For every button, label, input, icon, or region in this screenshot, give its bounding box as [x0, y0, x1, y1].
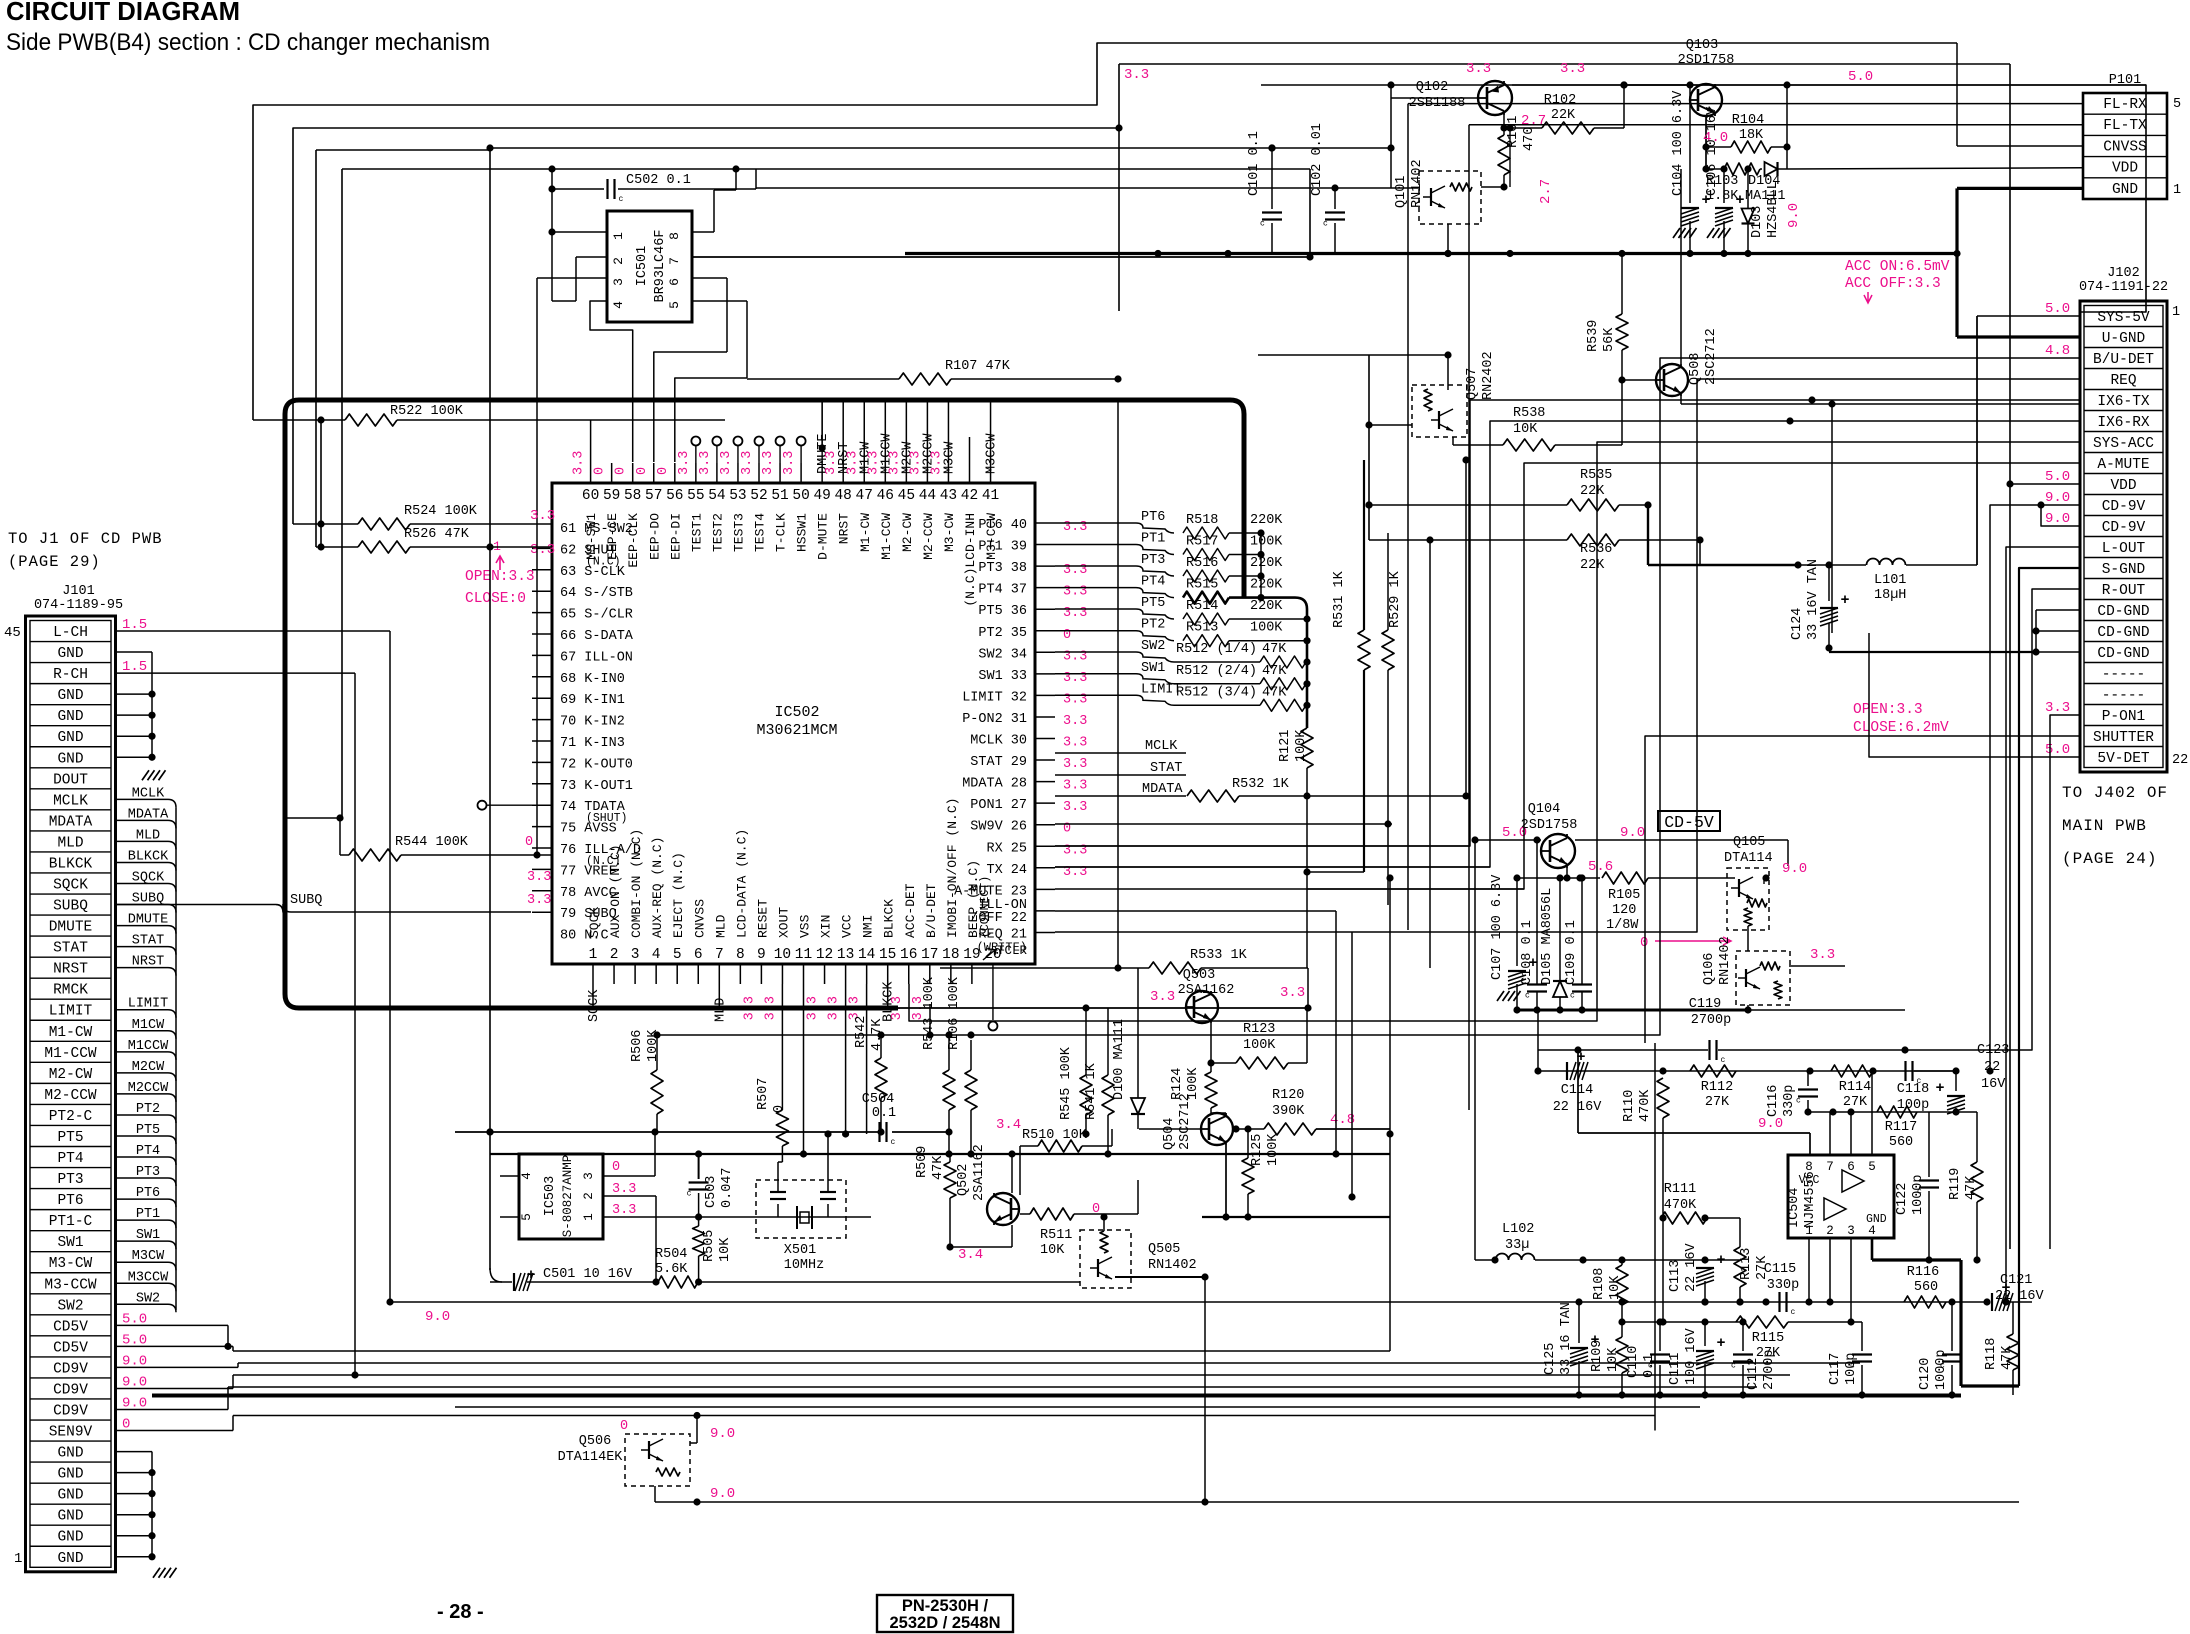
svg-text:3.3: 3.3 — [530, 508, 555, 524]
svg-text:MDATA: MDATA — [128, 807, 169, 822]
svg-text:L-CH: L-CH — [53, 625, 88, 641]
svg-text:D105 MA8056L: D105 MA8056L — [1540, 888, 1555, 985]
svg-text:BLKCK: BLKCK — [882, 899, 897, 938]
capacitor C106 — [1705, 106, 1745, 253]
capacitor C112 — [1622, 1318, 1777, 1398]
svg-text:22K: 22K — [1580, 484, 1605, 499]
IC502 bottom pins — [587, 798, 1027, 1031]
diode D104 — [1745, 81, 1802, 228]
svg-text:9.0: 9.0 — [425, 1309, 450, 1325]
svg-text:CLOSE:0: CLOSE:0 — [465, 591, 526, 607]
svg-text:44: 44 — [919, 488, 936, 504]
capacitor C111 — [1668, 1318, 1726, 1398]
svg-text:R532 1K: R532 1K — [1232, 777, 1290, 792]
resistor R102 — [1504, 81, 1628, 134]
svg-text:PT5: PT5 — [57, 1130, 83, 1146]
IC503 label — [543, 1155, 575, 1238]
svg-text:R116: R116 — [1907, 1265, 1939, 1280]
IC501 nest wires — [590, 301, 747, 462]
svg-text:C117: C117 — [1828, 1353, 1843, 1385]
IC502 label — [756, 704, 837, 739]
IC502 top net labels — [816, 433, 999, 474]
svg-text:10MHz: 10MHz — [784, 1258, 825, 1273]
svg-text:C110: C110 — [1626, 1346, 1641, 1378]
svg-text:TEST4: TEST4 — [753, 513, 768, 552]
resistor R106 — [947, 976, 977, 1157]
svg-text:SQCK: SQCK — [53, 878, 88, 894]
wire SUBQ — [115, 904, 531, 913]
transistor Q508 — [1618, 169, 2080, 633]
resistor R509 — [915, 1146, 956, 1251]
IC502 box — [552, 483, 1035, 964]
svg-text:BLKCK: BLKCK — [128, 849, 169, 864]
rail 1407 — [455, 1406, 1700, 1408]
svg-text:5: 5 — [667, 301, 682, 309]
left mid wires — [285, 818, 551, 908]
svg-text:0: 0 — [614, 467, 629, 475]
svg-text:43: 43 — [940, 488, 957, 504]
svg-text:48: 48 — [834, 488, 851, 504]
svg-text:CD-9V: CD-9V — [2102, 520, 2146, 536]
svg-text:R105: R105 — [1608, 888, 1640, 903]
svg-text:DMUTE: DMUTE — [128, 913, 169, 928]
svg-text:560: 560 — [1914, 1280, 1938, 1295]
svg-text:100p: 100p — [1897, 1098, 1929, 1113]
resistor R522 — [253, 404, 725, 426]
svg-text:60: 60 — [582, 488, 599, 504]
svg-text:1: 1 — [1805, 1224, 1813, 1238]
svg-text:Q106: Q106 — [1702, 953, 1717, 985]
svg-text:EEP-DI: EEP-DI — [668, 513, 683, 560]
svg-text:STAT 29: STAT 29 — [970, 755, 1027, 770]
svg-text:SW1: SW1 — [1141, 661, 1165, 676]
svg-text:c: c — [1570, 992, 1575, 1001]
vert 1648 — [1647, 505, 1649, 565]
capacitor C503 — [687, 1150, 735, 1217]
svg-text:STAT: STAT — [53, 941, 88, 957]
svg-text:M1-CW: M1-CW — [858, 513, 873, 552]
IC501 label — [635, 230, 668, 303]
svg-text:IX6-RX: IX6-RX — [2097, 415, 2150, 431]
svg-text:5: 5 — [2173, 97, 2181, 112]
IC502 top pins — [582, 463, 999, 504]
svg-text:DMUTE: DMUTE — [49, 920, 93, 936]
svg-text:12: 12 — [816, 947, 833, 963]
inductor L102 — [1475, 840, 1740, 1264]
capacitor C119 — [1538, 997, 1905, 1071]
svg-text:M3CW: M3CW — [132, 1249, 165, 1264]
svg-text:(SHUT): (SHUT) — [586, 812, 627, 825]
svg-text:PT2: PT2 — [136, 1102, 160, 1117]
svg-text:7: 7 — [1826, 1160, 1834, 1174]
svg-text:2: 2 — [611, 257, 626, 265]
resistor R118 — [1984, 1302, 2019, 1395]
svg-text:PT3: PT3 — [136, 1165, 160, 1180]
svg-text:Side PWB(B4) section : CD chan: Side PWB(B4) section : CD changer mechan… — [6, 29, 490, 56]
svg-text:C116: C116 — [1766, 1085, 1781, 1117]
svg-text:SW1 33: SW1 33 — [978, 669, 1027, 684]
resistor R510 — [1020, 1128, 1112, 1195]
resistor R511 — [1020, 1180, 1138, 1258]
svg-text:0: 0 — [656, 467, 671, 475]
svg-text:0: 0 — [612, 1160, 620, 1175]
svg-text:M3CCW: M3CCW — [128, 1270, 169, 1285]
svg-text:CD9V: CD9V — [53, 1361, 88, 1377]
IC504 pins — [1799, 1160, 1887, 1238]
J102 note — [2062, 784, 2168, 868]
IC503 voltages — [612, 1160, 636, 1218]
svg-text:ACC OFF:3.3: ACC OFF:3.3 — [1845, 276, 1941, 292]
svg-text:C120: C120 — [1918, 1358, 1933, 1390]
svg-text:c: c — [1721, 1056, 1726, 1065]
svg-text:IC504: IC504 — [1787, 1187, 1802, 1228]
svg-text:LCD-DATA (N.C): LCD-DATA (N.C) — [734, 829, 749, 938]
svg-text:10K: 10K — [1608, 1275, 1623, 1300]
capacitor C117 — [1828, 1322, 1872, 1399]
IC502 bottom voltages — [742, 996, 925, 1020]
resistor R108 — [1592, 1256, 1628, 1325]
resistor R543 — [922, 976, 955, 1157]
svg-text:GND: GND — [57, 1509, 83, 1525]
svg-text:+: + — [1840, 592, 1849, 609]
J101 GND bottom — [116, 1452, 177, 1578]
IC502 top names — [584, 513, 999, 607]
svg-text:CD9V: CD9V — [53, 1404, 88, 1420]
svg-text:COMBI-ON (N.C): COMBI-ON (N.C) — [629, 829, 644, 938]
svg-text:PT4: PT4 — [136, 1144, 160, 1159]
svg-text:PT6: PT6 — [57, 1193, 83, 1209]
svg-text:VDD: VDD — [2110, 478, 2136, 494]
svg-text:47K: 47K — [1262, 685, 1287, 700]
svg-text:RN1402: RN1402 — [1410, 159, 1425, 208]
svg-text:41: 41 — [982, 488, 999, 504]
svg-text:M1-CW: M1-CW — [49, 1025, 93, 1041]
svg-text:R111: R111 — [1664, 1182, 1696, 1197]
svg-text:OPEN:3.3: OPEN:3.3 — [465, 569, 535, 585]
J101 power jogs — [116, 1325, 239, 1430]
vert misc — [1332, 456, 1469, 1200]
svg-text:2SA1162: 2SA1162 — [972, 1144, 987, 1201]
svg-text:R512 (1/4): R512 (1/4) — [1176, 642, 1257, 657]
svg-text:SQCK: SQCK — [587, 989, 602, 1022]
IC502 right voltages — [1063, 520, 1087, 880]
capacitor C109 — [1564, 874, 1592, 1013]
svg-text:SW2: SW2 — [136, 1291, 160, 1306]
svg-text:VCC: VCC — [1799, 1174, 1820, 1187]
svg-text:M3-CW: M3-CW — [942, 513, 957, 552]
svg-text:9.0: 9.0 — [710, 1426, 735, 1442]
svg-text:3.3: 3.3 — [1063, 779, 1087, 794]
resistor R544 — [336, 814, 552, 861]
svg-text:S-GND: S-GND — [2102, 562, 2146, 578]
svg-text:R110: R110 — [1622, 1090, 1637, 1122]
svg-text:3.3: 3.3 — [845, 451, 860, 475]
svg-text:GND: GND — [57, 688, 83, 704]
svg-text:15: 15 — [879, 947, 896, 963]
svg-text:R516: R516 — [1186, 556, 1218, 571]
wire 878 — [1513, 859, 1613, 882]
svg-text:C501 10 16V: C501 10 16V — [543, 1267, 633, 1282]
svg-text:Q105: Q105 — [1733, 835, 1765, 850]
wire Q505 down — [1201, 1277, 2019, 1506]
svg-text:0.047: 0.047 — [720, 1167, 735, 1208]
capacitor C107 — [1490, 874, 1538, 1014]
svg-text:LIMIT: LIMIT — [128, 997, 169, 1012]
svg-text:MLD: MLD — [57, 835, 83, 851]
svg-text:+: + — [1716, 1335, 1725, 1352]
svg-text:DOUT: DOUT — [53, 772, 88, 788]
svg-text:3.3: 3.3 — [782, 451, 797, 475]
resistor R105 — [1602, 872, 1735, 933]
IC501 pin numbers — [611, 232, 682, 309]
svg-text:FL-RX: FL-RX — [2103, 97, 2147, 113]
svg-text:R533 1K: R533 1K — [1190, 948, 1248, 963]
svg-text:2SD1758: 2SD1758 — [1678, 53, 1735, 68]
svg-text:560: 560 — [1889, 1135, 1913, 1150]
svg-text:4: 4 — [611, 301, 626, 309]
svg-text:5.0: 5.0 — [1848, 69, 1873, 85]
svg-text:52: 52 — [750, 488, 767, 504]
svg-text:3.3: 3.3 — [612, 1203, 636, 1218]
rail 1502b — [693, 1498, 700, 1505]
svg-text:2532D / 2548N: 2532D / 2548N — [890, 1614, 1001, 1632]
svg-text:9.0: 9.0 — [710, 1486, 735, 1502]
svg-text:2700p: 2700p — [1762, 1349, 1777, 1390]
svg-text:GND: GND — [57, 1446, 83, 1462]
resistor R120 — [1232, 1088, 1390, 1135]
IC503 pins — [500, 1128, 871, 1282]
svg-text:R103: R103 — [1706, 174, 1738, 189]
capacitor C122 — [1895, 1112, 1939, 1264]
svg-text:R517: R517 — [1186, 535, 1218, 550]
svg-text:49: 49 — [813, 488, 830, 504]
svg-text:R515: R515 — [1186, 578, 1218, 593]
svg-text:(PAGE 24): (PAGE 24) — [2062, 850, 2157, 868]
capacitor C501 — [490, 1267, 656, 1291]
transistor Q502 — [950, 1117, 1021, 1263]
svg-text:RESET: RESET — [755, 899, 770, 938]
svg-text:PT2: PT2 — [1141, 618, 1165, 633]
svg-text:(N.C): (N.C) — [586, 555, 621, 568]
svg-text:R101: R101 — [1506, 116, 1521, 148]
svg-text:3: 3 — [611, 278, 626, 286]
svg-text:47K: 47K — [1964, 1175, 1979, 1200]
svg-text:IC501: IC501 — [635, 246, 650, 287]
svg-text:CNVSS: CNVSS — [2103, 139, 2147, 155]
svg-text:5.6K: 5.6K — [655, 1262, 688, 1277]
svg-text:CD-GND: CD-GND — [2097, 604, 2149, 620]
svg-text:TX 24: TX 24 — [986, 863, 1027, 878]
IC504 pin wires — [1805, 1071, 1872, 1322]
svg-text:RX 25: RX 25 — [986, 841, 1027, 856]
transistor Q503 — [1150, 968, 1305, 1063]
capacitor C102 — [1310, 123, 1345, 253]
J102 voltages — [2045, 301, 2070, 758]
svg-text:18: 18 — [942, 947, 959, 963]
svg-text:MDATA: MDATA — [49, 814, 93, 830]
svg-text:3.3: 3.3 — [1124, 67, 1149, 83]
wire 1134 — [455, 984, 867, 1158]
svg-text:53: 53 — [729, 488, 746, 504]
capacitor C502 — [608, 173, 691, 204]
open/close note 2 — [1853, 702, 1949, 736]
svg-text:5.0: 5.0 — [2045, 469, 2070, 485]
svg-text:220K: 220K — [1250, 556, 1283, 571]
svg-text:3.3: 3.3 — [740, 451, 755, 475]
svg-text:R544 100K: R544 100K — [395, 835, 469, 850]
svg-text:GND: GND — [2112, 182, 2138, 198]
svg-text:C119: C119 — [1689, 997, 1721, 1012]
note TO J1 — [8, 530, 163, 571]
page number — [437, 1601, 484, 1623]
svg-text:+: + — [1716, 1252, 1725, 1269]
resistor R542 — [854, 1016, 887, 1136]
transistor Q101 — [756, 124, 1554, 257]
capacitor C114 — [1553, 1049, 1603, 1115]
svg-text:33µ: 33µ — [1505, 1238, 1529, 1253]
svg-text:7: 7 — [715, 947, 724, 963]
svg-text:9.0: 9.0 — [1782, 861, 1807, 877]
svg-text:M3-CW: M3-CW — [49, 1256, 93, 1272]
svg-text:S-80827ANMP: S-80827ANMP — [561, 1155, 575, 1238]
svg-text:0: 0 — [593, 467, 608, 475]
svg-text:0: 0 — [1092, 1202, 1100, 1217]
svg-text:PT4: PT4 — [57, 1151, 83, 1167]
svg-text:47K: 47K — [2000, 1345, 2015, 1370]
svg-text:J101: J101 — [62, 584, 94, 599]
svg-text:STAT: STAT — [1150, 761, 1182, 776]
svg-text:3.3: 3.3 — [1063, 757, 1087, 772]
svg-text:16V: 16V — [1981, 1077, 2006, 1092]
svg-text:GND: GND — [57, 1488, 83, 1504]
svg-text:SUBQ: SUBQ — [53, 899, 88, 915]
svg-text:47K: 47K — [931, 1155, 946, 1180]
svg-text:R531 1K: R531 1K — [1332, 570, 1347, 628]
svg-text:R542: R542 — [854, 1016, 869, 1048]
svg-text:Q506: Q506 — [579, 1434, 611, 1449]
svg-text:0: 0 — [1640, 935, 1648, 951]
svg-text:NRST: NRST — [837, 513, 852, 544]
svg-text:T-CLK: T-CLK — [774, 513, 789, 552]
wire C501 — [486, 1128, 502, 1282]
svg-text:Q101: Q101 — [1394, 176, 1409, 208]
svg-text:6: 6 — [1847, 1160, 1855, 1174]
svg-text:PT6 40: PT6 40 — [978, 518, 1027, 533]
transistor Q104 — [1471, 802, 1645, 878]
IC503 box — [519, 1154, 603, 1239]
vert 1655 — [1654, 1043, 1656, 1431]
svg-text:M2-CW: M2-CW — [49, 1067, 93, 1083]
resistor R535 — [1365, 468, 1651, 511]
svg-text:BR93LC46F: BR93LC46F — [653, 230, 668, 303]
svg-text:PT1: PT1 — [1141, 532, 1165, 547]
diode D103 — [1742, 165, 2084, 253]
svg-text:3.3: 3.3 — [929, 451, 944, 475]
svg-text:22K: 22K — [1551, 108, 1576, 123]
svg-text:GND: GND — [57, 1467, 83, 1483]
svg-text:IX6-TX: IX6-TX — [2097, 394, 2150, 410]
J101 GND top — [116, 652, 166, 780]
svg-text:R507: R507 — [756, 1078, 771, 1110]
wire 1154b — [920, 1153, 1390, 1155]
resistor R541 — [1084, 1008, 1114, 1158]
rail gnd bottom — [152, 1394, 1961, 1398]
svg-text:R504: R504 — [655, 1247, 687, 1262]
svg-text:3.3: 3.3 — [866, 451, 881, 475]
svg-text:8: 8 — [667, 232, 682, 240]
svg-text:69 K-IN1: 69 K-IN1 — [560, 693, 625, 708]
svg-text:c: c — [1323, 220, 1328, 229]
svg-text:2.7: 2.7 — [1538, 179, 1554, 204]
svg-text:R118: R118 — [1984, 1338, 1999, 1370]
svg-text:GND: GND — [57, 709, 83, 725]
svg-text:c: c — [1525, 992, 1530, 1001]
svg-text:SW2: SW2 — [1141, 639, 1165, 654]
svg-text:1: 1 — [2172, 305, 2180, 320]
resistor R538 — [1503, 406, 1622, 451]
svg-text:CNVSS: CNVSS — [692, 899, 707, 938]
svg-text:NRST: NRST — [132, 955, 164, 970]
wire top 85 — [1512, 81, 2146, 88]
feed lines topleft — [253, 43, 1957, 1270]
J101 audio wires — [116, 631, 394, 1379]
svg-text:MCLK: MCLK — [1145, 739, 1178, 754]
svg-text:MDATA: MDATA — [1142, 782, 1183, 797]
svg-text:M2-CCW: M2-CCW — [921, 513, 936, 560]
capacitor C120 — [1918, 1298, 1962, 1398]
svg-text:1/8W: 1/8W — [1606, 918, 1639, 933]
svg-text:59: 59 — [603, 488, 620, 504]
svg-text:R512 (2/4): R512 (2/4) — [1176, 664, 1257, 679]
svg-text:0: 0 — [620, 1419, 628, 1434]
svg-text:IMOBI-ON/OFF (N.C): IMOBI-ON/OFF (N.C) — [945, 798, 960, 938]
svg-text:M2-CCW: M2-CCW — [44, 1088, 97, 1104]
transistor Q507 — [1369, 351, 1503, 445]
svg-text:CD5V: CD5V — [53, 1319, 88, 1335]
svg-text:C115: C115 — [1764, 1262, 1796, 1277]
IC501 box — [607, 211, 692, 322]
svg-text:CD-GND: CD-GND — [2097, 646, 2149, 662]
svg-text:470K: 470K — [1664, 1198, 1697, 1213]
rail cd9v2 — [233, 1374, 1790, 1376]
svg-text:1: 1 — [589, 947, 598, 963]
svg-text:TCLR: TCLR — [997, 944, 1028, 958]
svg-text:R512 (3/4): R512 (3/4) — [1176, 685, 1257, 700]
svg-text:L101: L101 — [1874, 573, 1906, 588]
vert 1369 — [1365, 355, 1372, 540]
svg-text:4.8: 4.8 — [2045, 343, 2070, 359]
svg-text:10: 10 — [774, 947, 791, 963]
svg-text:(N.C)LCD-INH: (N.C)LCD-INH — [963, 513, 978, 607]
resistor R533 — [940, 400, 1308, 1008]
svg-text:(CONNECT): (CONNECT) — [979, 876, 992, 938]
connector J102 — [2079, 266, 2188, 772]
svg-text:3.3: 3.3 — [1063, 800, 1087, 815]
svg-text:R536: R536 — [1580, 542, 1612, 557]
svg-text:BLKCK: BLKCK — [49, 856, 93, 872]
svg-text:57: 57 — [645, 488, 662, 504]
svg-text:19: 19 — [963, 947, 980, 963]
svg-text:9.0: 9.0 — [2045, 490, 2070, 506]
svg-text:330p: 330p — [1782, 1085, 1797, 1117]
svg-text:MDATA 28: MDATA 28 — [962, 777, 1027, 792]
svg-text:B/U-DET: B/U-DET — [924, 883, 939, 938]
svg-text:PN-2530H /: PN-2530H / — [902, 1597, 989, 1615]
svg-text:17: 17 — [921, 947, 938, 963]
svg-text:C125: C125 — [1543, 1343, 1558, 1375]
svg-text:CD-5V: CD-5V — [1664, 813, 1714, 832]
svg-text:50: 50 — [792, 488, 809, 504]
